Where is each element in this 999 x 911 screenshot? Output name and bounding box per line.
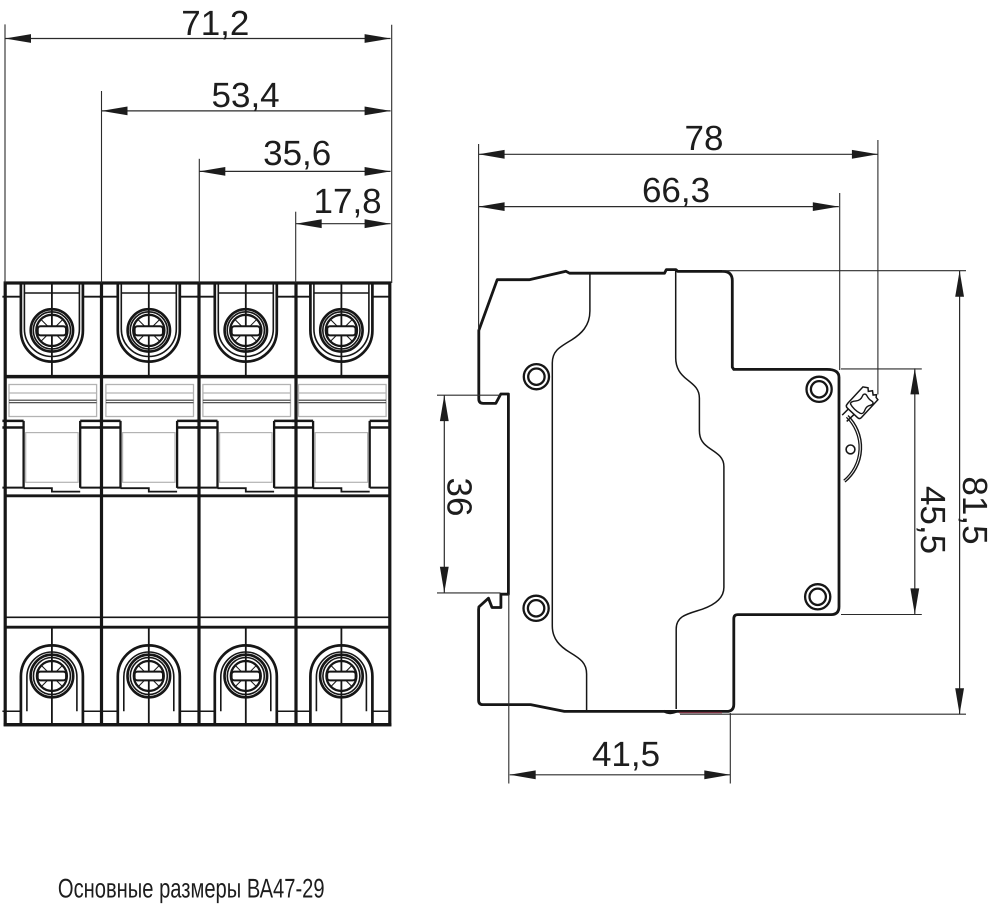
internal case line left (552, 274, 590, 710)
extension line y=714.2 (680, 713, 966, 715)
pole 3 top terminal (215, 284, 277, 375)
extension line x=877.9 (877, 140, 879, 394)
extension line y=395.2 (437, 394, 501, 396)
pole 1 bottom terminal (21, 628, 83, 724)
rivet top-left (524, 364, 549, 389)
pole 4 top terminal (310, 284, 372, 375)
pole 2 middle details (99, 297, 198, 712)
pole 2 top terminal (118, 284, 180, 375)
toggle pivot pin (846, 445, 855, 454)
svg-text:53,4: 53,4 (212, 76, 280, 115)
extension line x=199.3 (198, 159, 200, 283)
dimension 53,4 (102, 76, 391, 115)
pole 4 middle details (292, 297, 391, 712)
toggle pivot arc outer (845, 416, 861, 483)
front view body outline (5, 283, 390, 725)
extension line x=508.8 (508, 594, 510, 784)
dimension 35,6 (199, 134, 390, 176)
lower block line thin (5, 616, 390, 618)
red tint under bottom edge (679, 712, 722, 714)
bottom edge notch bump (664, 711, 678, 713)
body bottom edge (thicker) (4, 723, 392, 726)
dimension 45,5 (910, 368, 952, 614)
extension line x=295.7 (295, 212, 297, 283)
dimension 81,5 (955, 271, 994, 715)
pole 3 bottom terminal (215, 628, 277, 724)
extension line x=839.7 (839, 193, 841, 370)
extension line x=478.6 (478, 144, 480, 330)
toggle pivot arc inner (844, 417, 859, 480)
internal case line right (676, 271, 724, 710)
extension line left x=5 (4, 24, 6, 283)
svg-text:81,5: 81,5 (955, 476, 994, 544)
rivet bottom-left (524, 596, 549, 621)
svg-text:78: 78 (685, 119, 724, 158)
svg-text:41,5: 41,5 (592, 735, 660, 774)
pole 4 bottom terminal (310, 628, 372, 724)
extension line y=270.7 (722, 270, 966, 272)
extension line y=614.5 (841, 614, 922, 616)
pole 1 middle details (2, 297, 101, 712)
dimension 17,8 (296, 182, 391, 228)
dimension 71,2 (5, 4, 391, 43)
svg-text:45,5: 45,5 (913, 486, 952, 554)
pole 2 bottom terminal (118, 628, 180, 724)
pole 1 top terminal (21, 284, 83, 375)
svg-text:17,8: 17,8 (314, 182, 382, 221)
toggle handle head (845, 384, 880, 419)
toggle stem (842, 405, 852, 415)
pole divider 2 (197, 283, 200, 725)
dimension 78 (479, 119, 878, 159)
rivet bottom-right (805, 584, 830, 609)
extension line y=368.9 (841, 368, 922, 370)
lower block line thick (5, 626, 390, 629)
extension line right x=391.7 (391, 25, 393, 283)
terminal block bottom line (5, 375, 390, 379)
dimension 66,3 (479, 171, 839, 211)
dimension 36 (440, 395, 479, 593)
extension line y=592.9 (437, 592, 501, 594)
svg-text:66,3: 66,3 (642, 171, 710, 210)
dimension 41,5 (510, 735, 731, 779)
svg-text:71,2: 71,2 (181, 4, 249, 43)
pole 3 middle details (196, 297, 295, 712)
pole divider 1 (100, 283, 103, 725)
svg-text:36: 36 (440, 478, 479, 517)
svg-text:35,6: 35,6 (263, 134, 331, 173)
extension line x=730.3 (729, 713, 731, 784)
mid body line (5, 494, 390, 497)
pole divider 3 (294, 283, 297, 725)
svg-text:Основные размеры ВА47-29: Основные размеры ВА47-29 (58, 874, 325, 904)
rivet top-right (807, 377, 832, 402)
extension line x=101.5 (101, 91, 103, 283)
side view body outline (479, 270, 839, 712)
